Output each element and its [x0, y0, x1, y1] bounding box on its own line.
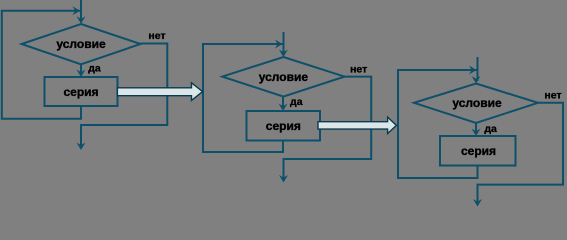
arrowhead exit 1 down: [77, 143, 86, 151]
arrowhead loop-back 2 right: [275, 40, 283, 49]
block arrow 1 to 2: [117, 83, 202, 101]
arrowhead yes 1 down: [77, 70, 86, 78]
wire loop-back 3 (left side): [398, 70, 478, 178]
arrowhead exit 2 down: [279, 175, 288, 183]
arrowhead entry 3 down: [472, 76, 481, 84]
arrowhead loop-back 3 right: [469, 66, 477, 75]
block arrow 2 to 3: [318, 117, 396, 133]
svg-text:условие: условие: [259, 70, 309, 84]
wire no-branch 3: [478, 103, 564, 204]
svg-text:нет: нет: [544, 90, 561, 102]
wire entry 1: [80, 0, 82, 21]
wire loop-back 2 (left side): [203, 44, 283, 152]
svg-text:серия: серия: [266, 119, 301, 133]
diamond condition 1: [22, 24, 141, 64]
svg-text:серия: серия: [461, 144, 496, 158]
svg-text:условие: условие: [452, 96, 502, 110]
arrowhead exit 3 down: [473, 199, 482, 207]
diamond condition 3: [414, 84, 538, 124]
svg-text:условие: условие: [56, 37, 106, 51]
svg-text:нет: нет: [350, 63, 367, 75]
svg-text:нет: нет: [148, 30, 165, 42]
arrowhead loop-back 1 right: [73, 6, 81, 15]
wire yes-branch 3: [475, 123, 477, 134]
wire no-branch 1: [81, 44, 167, 148]
rectangle series 2: [247, 111, 321, 141]
svg-text:серия: серия: [63, 85, 98, 99]
wire yes-branch 1: [80, 64, 82, 75]
arrowhead yes 2 down: [279, 104, 288, 112]
arrowhead entry 1 down: [77, 16, 86, 24]
rectangle series 1: [45, 77, 118, 106]
arrowhead entry 2 down: [279, 50, 288, 58]
rectangle series 3: [440, 136, 516, 166]
diamond condition 2: [222, 57, 344, 97]
wire entry 3: [477, 57, 479, 81]
wire no-branch 2: [284, 77, 372, 180]
svg-text:да: да: [484, 123, 497, 135]
arrowhead yes 3 down: [472, 129, 481, 137]
wire entry 2: [283, 32, 285, 55]
svg-text:да: да: [290, 96, 303, 108]
svg-text:да: да: [88, 63, 101, 75]
wire loop-back 1 (left side): [2, 11, 81, 119]
wire yes-branch 2: [282, 97, 284, 109]
